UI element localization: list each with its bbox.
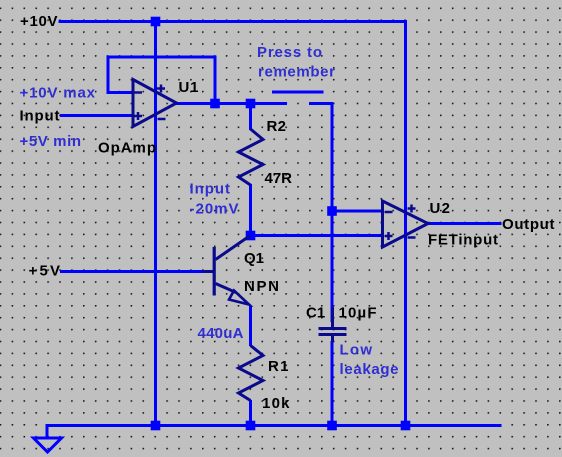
wire ground stub: [46, 424, 49, 439]
wire node A down to C1 top: [331, 211, 334, 322]
svg-text:10µF: 10µF: [339, 305, 377, 322]
svg-text:U2: U2: [430, 200, 451, 217]
junction bottom rail / U1 supply: [151, 421, 161, 431]
svg-text:+5V min: +5V min: [20, 133, 82, 150]
svg-text:10k: 10k: [262, 395, 290, 412]
resistor R1: [239, 346, 264, 401]
junction bottom rail / U2 supply: [401, 421, 411, 431]
svg-text:-20mV: -20mV: [190, 201, 239, 218]
svg-text:Input: Input: [20, 108, 60, 125]
svg-text:Input: Input: [190, 181, 231, 198]
wire collector node to U2 non-inverting input: [251, 234, 383, 237]
op-amp U1: [133, 80, 177, 127]
transistor Q1: [203, 236, 250, 305]
svg-text:R2: R2: [267, 118, 287, 135]
wire node A to U2 inverting input: [332, 210, 383, 213]
switch right contact: [309, 104, 332, 111]
ground symbol: [34, 438, 62, 452]
wire +10V top rail: [59, 20, 406, 23]
svg-text:R1: R1: [268, 358, 289, 375]
svg-text:Press to: Press to: [257, 44, 322, 61]
junction top rail / U1 supply: [151, 17, 161, 27]
svg-text:FETinput: FETinput: [428, 232, 498, 249]
junction collector node: [246, 231, 256, 241]
wire R2 bottom to collector node: [249, 184, 252, 236]
svg-text:+10V max: +10V max: [20, 85, 96, 102]
wire C1 bottom to ground rail: [331, 341, 334, 426]
svg-text:Low: Low: [340, 342, 373, 359]
junction bottom rail / C1: [327, 421, 337, 431]
wire ground bottom rail: [47, 424, 502, 427]
junction R2 top / switch: [246, 99, 256, 109]
switch SW1 press-to-make actuator bar: [272, 91, 324, 94]
junction U1 output / feedback: [210, 99, 220, 109]
wire U2 supply drop (top rail corner down to bottom rail through U2): [404, 20, 407, 426]
wire Q1 emitter down to R1: [249, 306, 252, 347]
junction bottom rail / R1: [246, 421, 256, 431]
op-amp U2: [383, 201, 429, 247]
capacitor C1: [319, 307, 347, 342]
svg-text:leakage: leakage: [340, 361, 399, 378]
wire +5V to Q1 base: [60, 270, 214, 273]
svg-text:Output: Output: [502, 216, 555, 233]
svg-text:remember: remember: [258, 64, 335, 81]
resistor R2: [239, 129, 264, 185]
svg-text:440uA: 440uA: [198, 325, 244, 342]
svg-text:Q1: Q1: [244, 250, 264, 267]
svg-text:C1: C1: [306, 305, 325, 322]
svg-text:+5V: +5V: [29, 263, 61, 280]
wire feedback from U1 inverting input: [108, 57, 215, 104]
svg-text:NPN: NPN: [244, 278, 279, 295]
wire switch to node A: [331, 104, 334, 212]
wire U1 positive supply drop (top rail to bottom rail through U1): [154, 22, 157, 426]
svg-text:47R: 47R: [265, 170, 293, 187]
wire R1 bottom lead to ground rail: [249, 400, 252, 426]
wire U2 output: [428, 222, 502, 225]
svg-text:+10V: +10V: [20, 13, 58, 30]
junction node A (switch / C1 / U2 inverting): [327, 206, 337, 216]
wire input to U1 non-inverting input: [60, 114, 133, 117]
svg-text:OpAmp: OpAmp: [98, 140, 156, 157]
svg-text:U1: U1: [179, 79, 199, 96]
wire U1 output to switch left contact: [176, 102, 287, 105]
wire R2 top lead: [249, 104, 252, 131]
